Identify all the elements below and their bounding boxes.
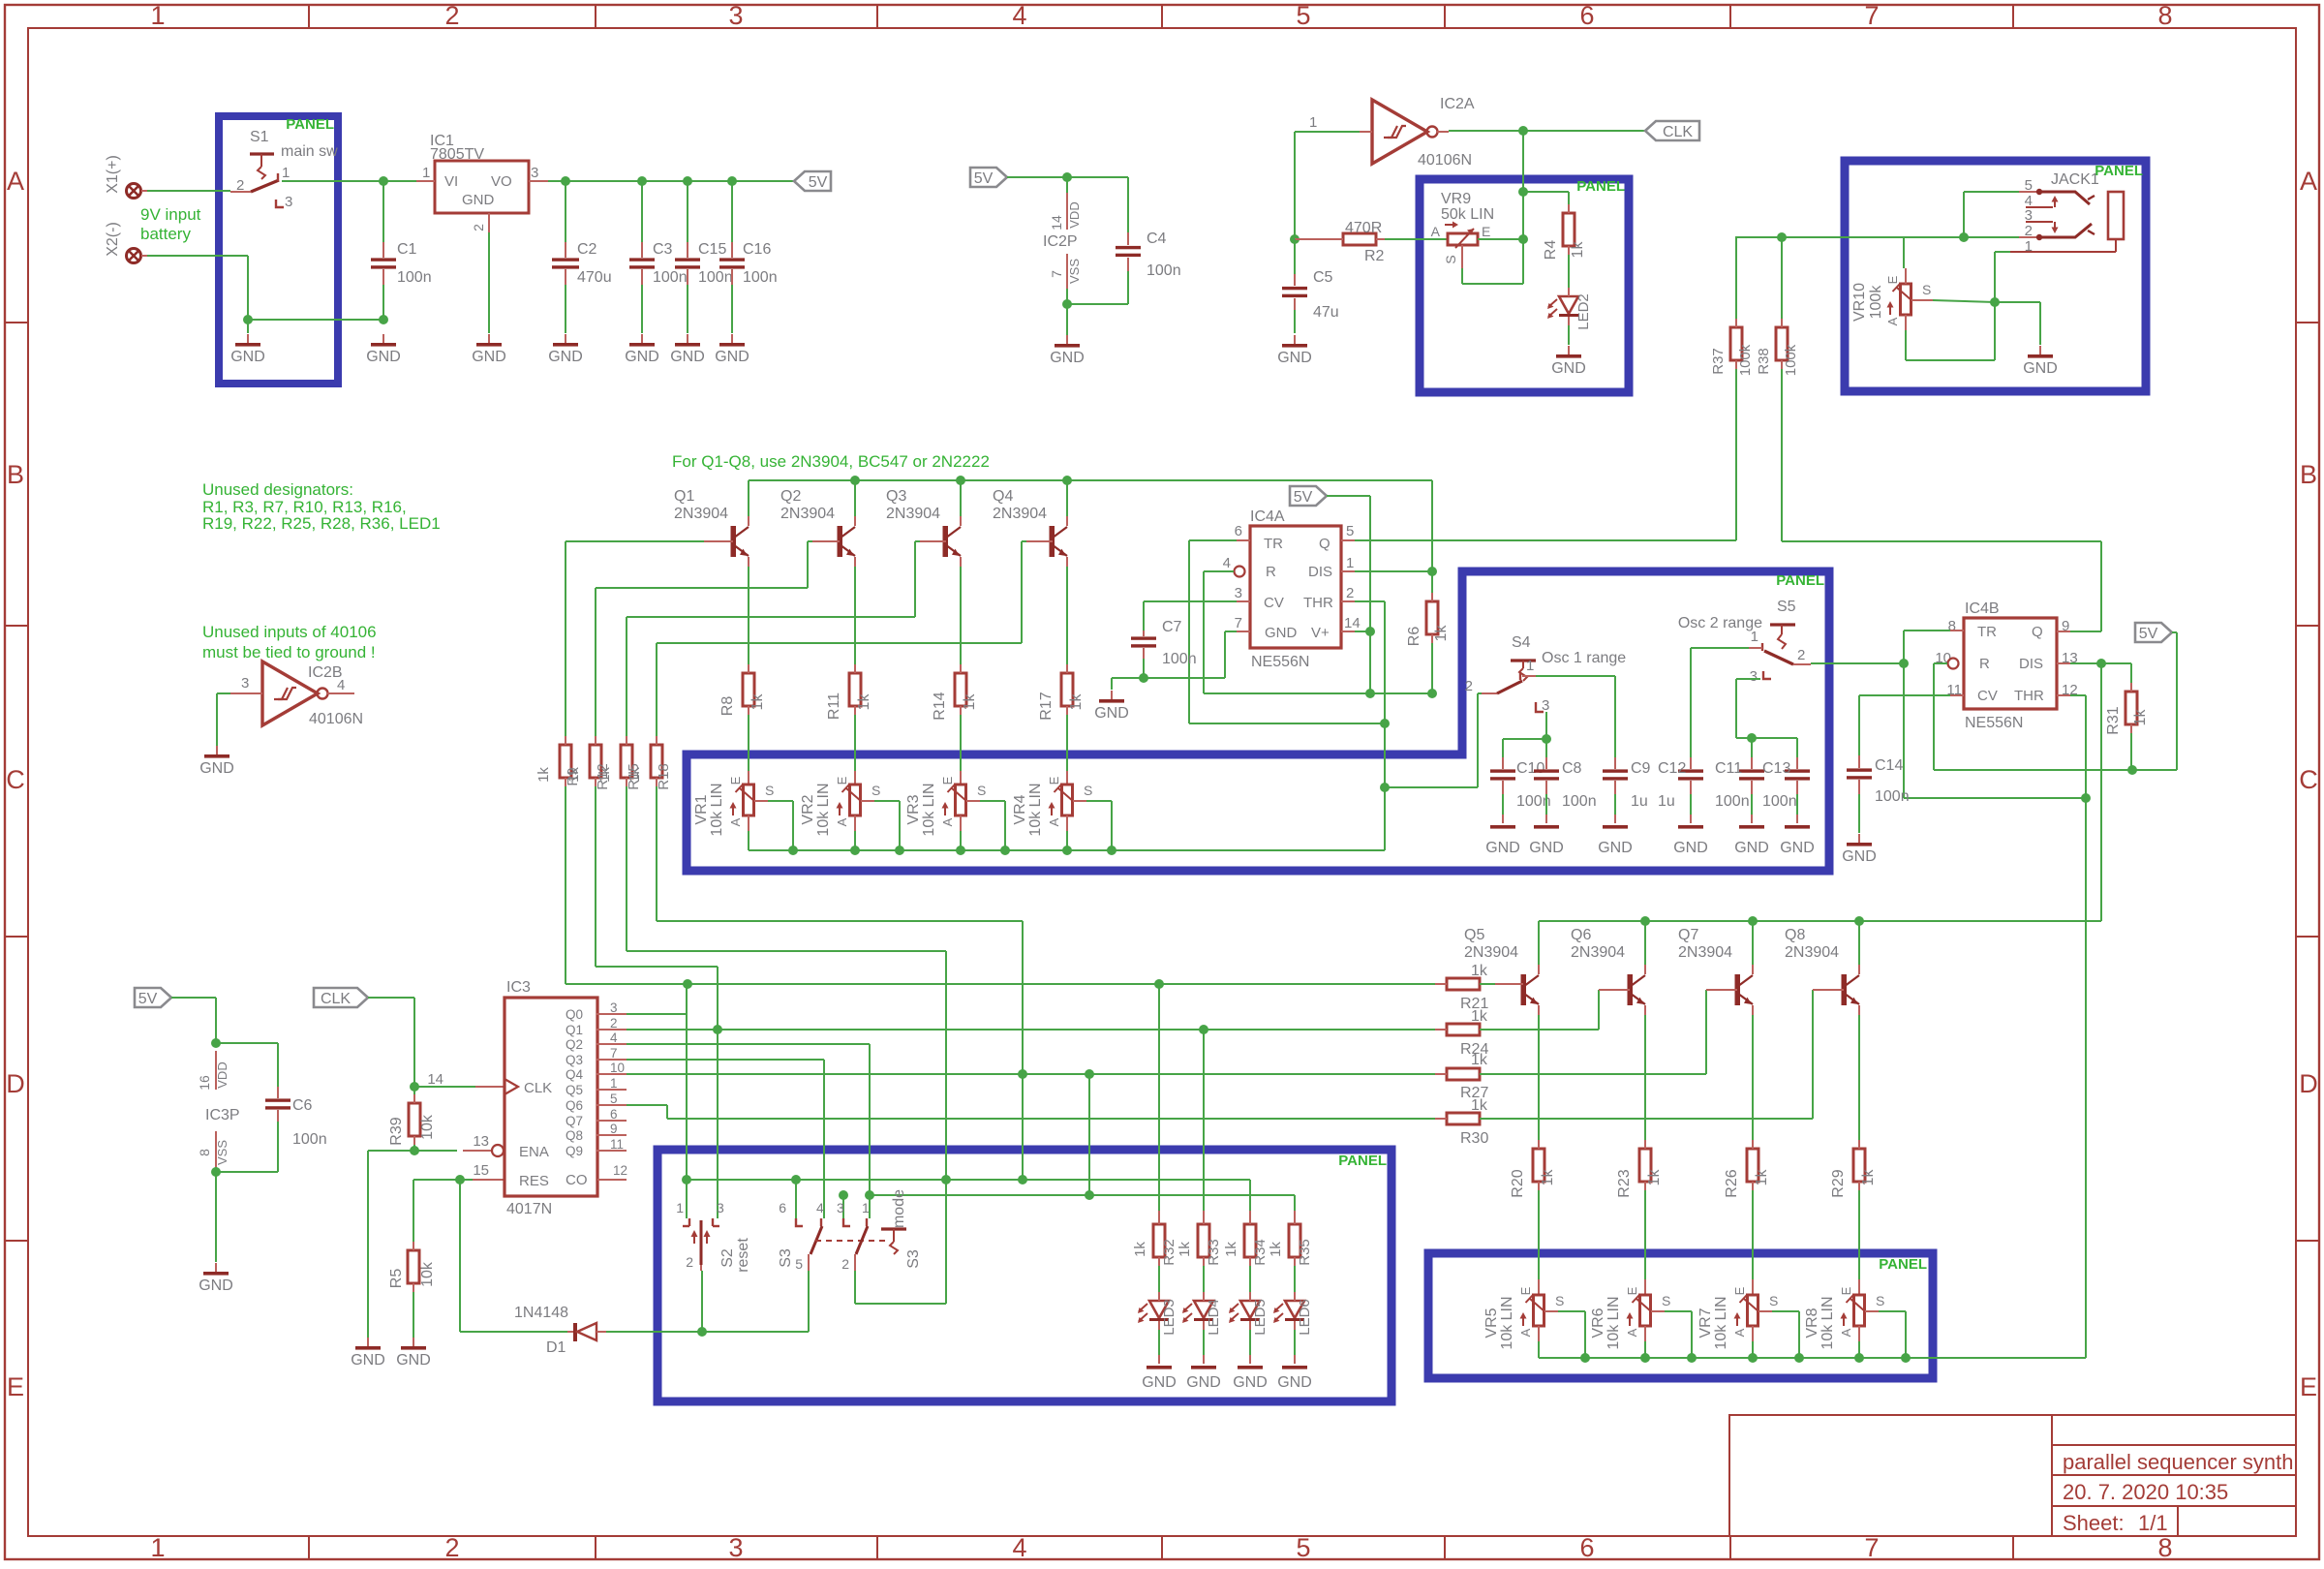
svg-text:1k: 1k [1223,1242,1239,1257]
svg-text:100n: 100n [1875,788,1910,805]
svg-text:6: 6 [1579,1533,1594,1562]
svg-text:CLK: CLK [1663,124,1693,140]
svg-text:5V: 5V [809,174,828,191]
svg-text:E: E [1047,776,1061,784]
svg-text:GND: GND [625,349,659,365]
svg-text:A: A [2300,167,2317,196]
svg-text:GND: GND [1142,1374,1177,1391]
svg-text:5V: 5V [974,170,994,187]
svg-text:5: 5 [2025,177,2033,194]
svg-text:IC4B: IC4B [1965,600,2000,617]
svg-text:TR: TR [1264,536,1283,552]
svg-text:A: A [1885,317,1900,325]
svg-text:40106N: 40106N [1418,152,1472,169]
svg-text:1k: 1k [1471,1008,1488,1025]
svg-text:1k: 1k [2132,709,2149,726]
svg-text:1k: 1k [1068,693,1085,711]
svg-text:Q6: Q6 [566,1098,583,1113]
svg-text:4: 4 [337,677,345,693]
svg-text:Q1: Q1 [566,1023,583,1037]
svg-text:VR3: VR3 [905,794,922,824]
svg-text:E: E [1839,1286,1853,1295]
svg-text:2: 2 [471,224,486,231]
svg-text:4: 4 [1223,555,1231,571]
svg-text:2: 2 [841,1256,849,1272]
svg-text:1u: 1u [1658,793,1675,810]
svg-text:C: C [2299,765,2318,794]
svg-text:R: R [1979,656,1990,672]
svg-text:10: 10 [610,1061,625,1075]
svg-text:GND: GND [548,349,583,365]
svg-text:Q8: Q8 [1785,927,1805,943]
svg-text:Q7: Q7 [1678,927,1698,943]
svg-text:E: E [1482,224,1490,239]
svg-text:main sw: main sw [281,143,338,160]
svg-text:1k: 1k [1268,1242,1284,1257]
svg-text:C1: C1 [397,241,417,258]
svg-text:E: E [1885,275,1900,284]
svg-text:5: 5 [610,1092,618,1106]
svg-text:R34: R34 [1252,1239,1269,1266]
svg-text:C16: C16 [743,241,771,258]
svg-text:R18: R18 [656,763,672,790]
svg-text:For Q1-Q8, use 2N3904, BC547 o: For Q1-Q8, use 2N3904, BC547 or 2N2222 [672,452,990,471]
svg-text:3: 3 [728,1533,743,1562]
svg-text:1: 1 [862,1200,870,1215]
svg-text:100n: 100n [292,1131,327,1148]
svg-text:E: E [7,1372,24,1401]
svg-text:8: 8 [197,1149,212,1156]
svg-text:2: 2 [444,1533,459,1562]
svg-text:V+: V+ [1311,625,1330,641]
svg-text:E: E [1732,1286,1747,1295]
svg-text:C8: C8 [1562,760,1582,777]
svg-text:Q5: Q5 [566,1083,583,1097]
svg-text:PANEL: PANEL [2095,163,2143,179]
svg-text:S: S [765,783,774,798]
svg-text:5V: 5V [138,991,158,1007]
svg-text:1: 1 [676,1200,684,1215]
svg-text:IC2A: IC2A [1440,96,1475,112]
svg-text:1k: 1k [1646,1169,1663,1186]
svg-text:5: 5 [1296,1533,1310,1562]
svg-text:C11: C11 [1715,760,1742,777]
svg-text:100n: 100n [1715,793,1750,810]
svg-text:S: S [1769,1293,1778,1308]
svg-text:THR: THR [2014,688,2044,704]
svg-text:15: 15 [473,1162,489,1179]
svg-text:Q0: Q0 [566,1007,583,1022]
svg-text:GND: GND [715,349,749,365]
svg-text:S3: S3 [905,1249,922,1269]
svg-text:10k LIN: 10k LIN [921,783,937,836]
svg-text:1k: 1k [1433,625,1450,642]
svg-text:VR1: VR1 [693,794,710,824]
svg-text:GND: GND [670,349,705,365]
svg-text:GND: GND [1734,840,1769,856]
svg-text:4: 4 [1012,1,1026,30]
svg-text:Q6: Q6 [1571,927,1591,943]
svg-text:R6: R6 [1406,627,1422,647]
svg-text:VR2: VR2 [800,794,816,824]
svg-text:1k: 1k [1860,1169,1877,1186]
svg-text:Q4: Q4 [566,1067,584,1082]
svg-text:Osc 1 range: Osc 1 range [1542,650,1626,666]
svg-text:PANEL: PANEL [1879,1256,1927,1273]
svg-text:R8: R8 [719,696,736,717]
svg-text:R29: R29 [1830,1169,1847,1197]
svg-text:A: A [728,817,743,826]
svg-text:VR6: VR6 [1590,1307,1606,1338]
svg-text:GND: GND [1598,840,1633,856]
svg-text:GND: GND [199,760,234,777]
svg-text:S: S [1876,1293,1884,1308]
svg-text:S5: S5 [1777,599,1796,615]
svg-text:Unused inputs of 40106: Unused inputs of 40106 [202,623,377,641]
svg-text:LED3: LED3 [1161,1299,1177,1336]
svg-text:GND: GND [1277,1374,1312,1391]
svg-text:1: 1 [610,1076,618,1091]
svg-text:JACK1: JACK1 [2051,171,2099,188]
svg-text:PANEL: PANEL [1338,1153,1387,1169]
svg-text:Sheet:: Sheet: [2063,1511,2125,1535]
svg-text:NE556N: NE556N [1965,715,2023,731]
svg-text:RES: RES [519,1173,549,1189]
svg-text:R23: R23 [1616,1169,1633,1197]
svg-text:1k: 1k [856,693,872,711]
svg-text:6: 6 [1579,1,1594,30]
svg-text:1k: 1k [1177,1242,1193,1257]
svg-text:CLK: CLK [524,1080,552,1096]
svg-text:2N3904: 2N3904 [1678,944,1732,961]
svg-text:C12: C12 [1658,760,1686,777]
svg-text:100n: 100n [653,269,688,286]
svg-text:100n: 100n [1562,793,1597,810]
svg-text:IC4A: IC4A [1250,508,1285,525]
svg-text:20. 7. 2020 10:35: 20. 7. 2020 10:35 [2063,1480,2228,1504]
svg-text:C9: C9 [1631,760,1651,777]
svg-text:S: S [871,783,880,798]
svg-text:DIS: DIS [1308,564,1332,580]
svg-text:100k: 100k [1737,344,1754,376]
svg-text:1k: 1k [749,693,766,711]
svg-text:10k LIN: 10k LIN [709,783,725,836]
svg-text:1k: 1k [1754,1169,1770,1186]
svg-text:1k: 1k [627,767,643,783]
svg-text:GND: GND [1673,840,1708,856]
svg-text:3: 3 [285,194,292,210]
svg-text:D1: D1 [546,1339,566,1356]
svg-text:1k: 1k [1471,1052,1488,1068]
svg-text:1N4148: 1N4148 [514,1305,568,1321]
svg-text:VO: VO [491,173,512,190]
svg-text:Q4: Q4 [993,488,1013,505]
svg-text:100k: 100k [1868,285,1884,320]
svg-text:Q2: Q2 [780,488,801,505]
svg-text:S4: S4 [1512,634,1531,651]
svg-text:A: A [1839,1328,1853,1337]
svg-text:PANEL: PANEL [1776,572,1824,589]
svg-text:parallel sequencer synth: parallel sequencer synth [2063,1450,2293,1474]
svg-text:D: D [6,1069,25,1098]
svg-text:7: 7 [1049,270,1064,278]
svg-text:100n: 100n [698,269,733,286]
svg-text:GND: GND [1094,705,1129,722]
svg-text:GND: GND [1277,350,1312,366]
svg-text:battery: battery [140,225,191,243]
svg-text:VR5: VR5 [1483,1307,1500,1338]
svg-text:2N3904: 2N3904 [993,506,1047,522]
svg-text:2: 2 [444,1,459,30]
svg-text:3: 3 [531,165,538,181]
svg-text:13: 13 [473,1133,489,1150]
svg-text:X1(+): X1(+) [105,155,121,194]
svg-text:S3: S3 [778,1248,794,1268]
svg-text:1k: 1k [962,693,978,711]
svg-text:2N3904: 2N3904 [886,506,940,522]
svg-text:VR7: VR7 [1697,1307,1714,1338]
svg-text:X2(-): X2(-) [105,222,121,257]
svg-text:E: E [2300,1372,2317,1401]
svg-text:1: 1 [422,165,430,181]
svg-text:5: 5 [1296,1,1310,30]
svg-text:E: E [1625,1286,1639,1295]
svg-text:R17: R17 [1038,692,1055,720]
svg-text:1u: 1u [1631,793,1648,810]
svg-text:R5: R5 [388,1269,405,1289]
svg-text:NE556N: NE556N [1251,654,1309,670]
svg-text:Q3: Q3 [566,1053,583,1067]
svg-text:1: 1 [1526,658,1534,674]
svg-text:GND: GND [2023,360,2058,377]
svg-text:LED4: LED4 [1206,1299,1222,1336]
svg-text:1k: 1k [1570,241,1586,259]
svg-text:3: 3 [1750,668,1758,685]
svg-text:4017N: 4017N [506,1201,552,1217]
svg-text:CV: CV [1264,595,1284,611]
svg-text:R38: R38 [1756,348,1772,375]
svg-text:10k: 10k [419,1261,436,1287]
svg-text:R19, R22, R25, R28, R36, LED1: R19, R22, R25, R28, R36, LED1 [202,514,441,533]
svg-text:VR8: VR8 [1804,1307,1820,1338]
svg-text:3: 3 [837,1200,844,1215]
svg-text:GND: GND [1842,848,1877,865]
svg-text:E: E [1518,1286,1533,1295]
svg-text:7: 7 [1864,1,1879,30]
svg-text:9: 9 [610,1122,618,1136]
svg-text:A: A [835,817,849,826]
svg-text:S: S [1555,1293,1564,1308]
svg-text:2N3904: 2N3904 [1785,944,1839,961]
svg-text:2N3904: 2N3904 [1464,944,1518,961]
svg-text:4: 4 [610,1031,618,1045]
svg-text:3: 3 [2025,207,2033,224]
svg-text:S1: S1 [250,129,269,145]
svg-text:VDD: VDD [1067,201,1082,228]
svg-text:A: A [1625,1328,1639,1337]
svg-text:2: 2 [1465,678,1473,694]
svg-text:B: B [7,460,24,489]
svg-text:R4: R4 [1543,240,1559,261]
svg-text:11: 11 [610,1137,624,1152]
svg-text:10k LIN: 10k LIN [1027,783,1044,836]
svg-text:E: E [940,776,955,784]
svg-text:2: 2 [610,1016,618,1031]
svg-text:100k: 100k [1783,344,1799,376]
svg-text:R30: R30 [1460,1130,1488,1147]
svg-text:R14: R14 [932,692,948,720]
svg-text:must be tied to ground !: must be tied to ground ! [202,643,376,661]
svg-text:6: 6 [779,1200,786,1215]
svg-text:1k: 1k [1471,963,1488,979]
svg-text:100n: 100n [1147,262,1181,279]
svg-text:1k: 1k [1540,1169,1556,1186]
svg-text:Unused designators:: Unused designators: [202,480,353,499]
svg-text:40106N: 40106N [309,711,363,727]
svg-text:E: E [835,776,849,784]
svg-text:A: A [1047,817,1061,826]
svg-text:14: 14 [1344,615,1361,631]
svg-text:GND: GND [462,192,495,208]
svg-text:2N3904: 2N3904 [674,506,728,522]
svg-text:GND: GND [351,1352,385,1369]
svg-text:ENA: ENA [519,1144,549,1160]
svg-text:470u: 470u [577,269,612,286]
svg-text:CO: CO [566,1172,588,1188]
svg-text:VR4: VR4 [1012,794,1028,824]
svg-text:2: 2 [1797,647,1805,663]
svg-text:S2: S2 [719,1248,736,1268]
svg-text:7805TV: 7805TV [430,146,484,163]
svg-text:14: 14 [1049,215,1064,231]
svg-text:CV: CV [1977,688,1998,704]
svg-text:1k: 1k [596,767,613,783]
svg-text:C: C [6,765,25,794]
svg-text:A: A [1431,224,1441,239]
svg-text:Q3: Q3 [886,488,906,505]
svg-text:4: 4 [816,1200,824,1215]
svg-text:16: 16 [197,1075,212,1091]
svg-text:5V: 5V [1294,489,1313,506]
svg-text:8: 8 [2157,1,2172,30]
svg-text:5V: 5V [2139,626,2158,642]
svg-text:4: 4 [1012,1533,1026,1562]
svg-text:Q: Q [2032,624,2043,640]
svg-text:GND: GND [230,349,265,365]
svg-text:9V input: 9V input [140,205,201,224]
svg-text:14: 14 [427,1071,443,1088]
svg-text:R26: R26 [1724,1169,1740,1197]
svg-text:2N3904: 2N3904 [1571,944,1625,961]
svg-text:Q7: Q7 [566,1114,583,1128]
svg-text:Q: Q [1319,536,1330,552]
svg-text:GND: GND [1551,360,1586,377]
svg-text:GND: GND [472,349,506,365]
svg-text:GND: GND [1050,350,1085,366]
svg-text:1: 1 [282,165,290,181]
svg-text:1k: 1k [535,767,552,783]
svg-text:R11: R11 [826,692,842,720]
svg-text:100n: 100n [1162,651,1197,667]
svg-text:reset: reset [735,1238,751,1273]
svg-text:R39: R39 [388,1117,405,1145]
svg-text:C6: C6 [292,1097,313,1114]
svg-text:10k LIN: 10k LIN [815,783,832,836]
svg-text:470R: 470R [1345,220,1382,236]
svg-text:1k: 1k [566,767,582,783]
svg-text:C7: C7 [1162,619,1182,635]
svg-text:3: 3 [728,1,743,30]
svg-text:GND: GND [1485,840,1520,856]
svg-text:GND: GND [396,1352,431,1369]
svg-text:DIS: DIS [2019,656,2043,672]
svg-text:R37: R37 [1710,348,1727,375]
svg-text:8: 8 [1948,618,1956,634]
svg-text:GND: GND [1233,1374,1268,1391]
svg-text:GND: GND [1529,840,1564,856]
svg-text:1: 1 [1346,555,1354,571]
svg-text:A: A [940,817,955,826]
svg-text:S: S [1084,783,1092,798]
svg-text:C10: C10 [1516,760,1544,777]
svg-text:VR10: VR10 [1851,283,1868,322]
svg-text:GND: GND [1265,625,1298,641]
svg-text:Q1: Q1 [674,488,694,505]
svg-text:2: 2 [236,177,244,194]
svg-text:VSS: VSS [215,1140,229,1165]
svg-text:IC3: IC3 [506,979,531,996]
svg-text:1: 1 [1751,629,1758,645]
svg-text:VSS: VSS [1067,259,1082,284]
svg-text:7: 7 [610,1046,618,1061]
svg-text:GND: GND [1780,840,1815,856]
svg-text:CLK: CLK [321,991,351,1007]
svg-text:S: S [1443,255,1458,263]
svg-text:A: A [7,167,24,196]
svg-text:R: R [1266,564,1276,580]
svg-text:S: S [977,783,986,798]
svg-text:C5: C5 [1313,269,1333,286]
svg-text:C13: C13 [1762,760,1790,777]
svg-text:R33: R33 [1206,1239,1222,1266]
svg-text:10k LIN: 10k LIN [1499,1296,1515,1349]
svg-text:50k LIN: 50k LIN [1441,206,1494,223]
svg-text:2: 2 [2025,223,2033,239]
svg-text:PANEL: PANEL [286,116,334,133]
svg-text:Q8: Q8 [566,1128,583,1143]
svg-text:1: 1 [150,1533,165,1562]
svg-text:47u: 47u [1313,304,1339,321]
svg-text:2N3904: 2N3904 [780,506,835,522]
svg-text:GND: GND [199,1277,233,1294]
svg-text:10k LIN: 10k LIN [1713,1296,1729,1349]
svg-text:VR9: VR9 [1441,191,1471,207]
svg-text:S: S [1922,282,1931,297]
svg-text:mode: mode [891,1189,907,1228]
svg-text:LED5: LED5 [1252,1299,1269,1336]
svg-text:1: 1 [150,1,165,30]
svg-text:R20: R20 [1510,1169,1526,1197]
svg-text:10k: 10k [419,1114,436,1140]
svg-text:10k LIN: 10k LIN [1819,1296,1836,1349]
svg-text:VDD: VDD [215,1061,229,1088]
svg-text:GND: GND [366,349,401,365]
svg-text:A: A [1732,1328,1747,1337]
svg-text:LED2: LED2 [1575,293,1592,330]
svg-text:1: 1 [1309,114,1317,131]
svg-text:E: E [728,776,743,784]
svg-text:S: S [1662,1293,1670,1308]
